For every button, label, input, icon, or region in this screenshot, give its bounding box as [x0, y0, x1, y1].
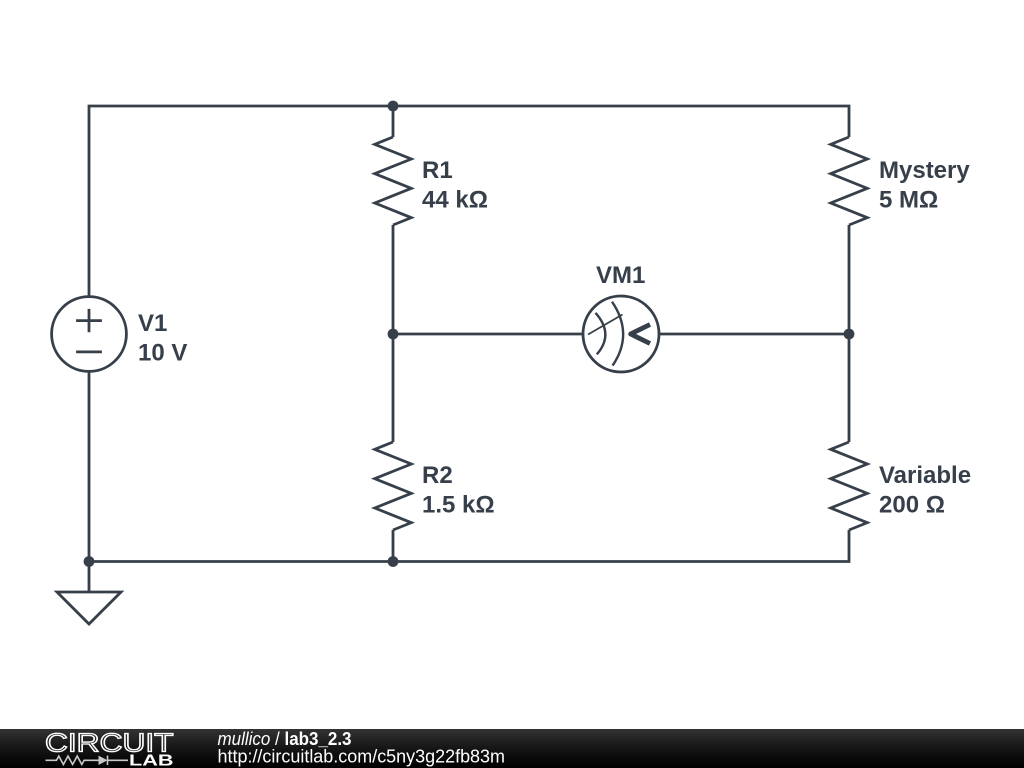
svg-text:VM1: VM1 [596, 262, 645, 289]
wire: right rail between Mystery and node [848, 225, 851, 442]
svg-text:http://circuitlab.com/c5ny3g22: http://circuitlab.com/c5ny3g22fb83m [218, 747, 506, 767]
voltmeter VM1 meter arcs [588, 302, 650, 366]
V1 minus sign [76, 350, 102, 353]
svg-text:R1: R1 [422, 157, 453, 184]
voltmeter VM1 needle [588, 315, 623, 335]
svg-text:200 Ω: 200 Ω [879, 492, 945, 519]
svg-text:5 MΩ: 5 MΩ [879, 187, 938, 214]
voltage source V1 body [52, 297, 127, 372]
svg-text:44 kΩ: 44 kΩ [422, 187, 488, 214]
svg-text:V1: V1 [138, 310, 167, 337]
wire: middle branch upper lead [392, 106, 395, 137]
ground [57, 592, 121, 624]
wire: left rail top + top rail + right upper lead [89, 106, 849, 296]
node: junction bottom of middle branch [388, 556, 399, 567]
svg-text:Mystery: Mystery [879, 157, 970, 184]
wire: left rail lower (V1 bottom to ground) [88, 372, 91, 592]
V1 plus sign [76, 309, 102, 332]
wire: voltmeter wire left [393, 333, 583, 336]
node: junction bottom left / ground [84, 556, 95, 567]
voltmeter VM1 body [583, 296, 659, 372]
resistor Variable [831, 442, 868, 530]
voltmeter VM1 V glyph [631, 325, 650, 344]
wire: bottom rail + right lower lead [89, 530, 849, 562]
svg-text:10 V: 10 V [138, 340, 187, 367]
node: junction right rail / voltmeter wire [844, 329, 855, 340]
svg-text:1.5 kΩ: 1.5 kΩ [422, 492, 495, 519]
resistor Mystery [831, 137, 868, 225]
node: junction top of middle branch [388, 101, 399, 112]
logo diode [99, 756, 108, 765]
node: junction middle branch / voltmeter wire [388, 329, 399, 340]
resistor R2 [375, 442, 412, 530]
svg-text:R2: R2 [422, 462, 453, 489]
svg-text:LAB: LAB [129, 753, 174, 768]
footer bar [0, 729, 1024, 768]
wire: middle branch between R1 and node [392, 225, 395, 442]
logo resistor squiggle [46, 756, 129, 765]
wire: voltmeter wire right [659, 333, 849, 336]
svg-text:Variable: Variable [879, 462, 971, 489]
wire: middle branch lower lead [392, 530, 395, 562]
resistor R1 [375, 137, 412, 225]
